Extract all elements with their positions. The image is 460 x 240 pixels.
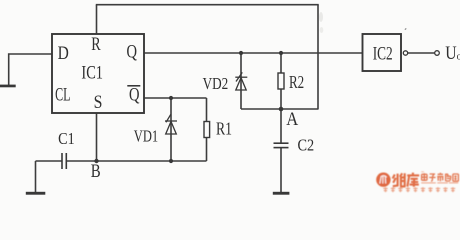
watermark small chars: dian [422,173,427,181]
watermark small chars: chang [446,174,451,182]
svg-text:CL: CL [55,84,70,105]
wire S pin to node B [96,113,98,161]
IC2 output bubble [403,51,407,55]
svg-text:o: o [457,52,460,63]
resistor R2 [278,73,284,89]
svg-text:R2: R2 [289,72,304,92]
wire node A horizontal rail [241,108,318,110]
node junction VD1 bottom [169,159,173,163]
wire R pin to top rail [96,5,98,35]
wire bottom rail left of C1 [36,160,63,162]
wire bottom rail right of C1 [66,160,206,162]
node B junction [94,159,98,163]
watermark small chars: zi [429,174,435,181]
wire VD1 branch vertical [170,98,172,161]
svg-text:R: R [91,34,101,55]
svg-text:Q: Q [129,84,140,105]
svg-text:U: U [445,43,457,64]
watermark small chars: shi [437,173,443,181]
watermark char ku [407,173,419,187]
wire IC2 output to terminal [408,52,435,54]
watermark url text www.dzsc.com [421,182,458,184]
output terminal circle Uo [435,51,440,56]
ground (bottom left, C1) [26,192,46,195]
wire Q output line to IC2 [144,52,363,54]
svg-text:S: S [94,92,103,113]
svg-text:D: D [58,43,69,64]
diode VD2 [235,72,247,90]
wire Qbar output line [144,97,207,99]
resistor R1 [204,122,210,138]
svg-text:IC1: IC1 [81,62,103,83]
wire top rail [96,4,319,6]
watermark logo circle [376,173,390,187]
svg-text:C2: C2 [297,136,314,155]
node junction Q-VD2 [239,51,243,55]
wire C2 bottom lead to ground [280,148,282,192]
capacitor C1 plates [62,153,66,169]
wire right vertical drop from top rail to node A line [317,5,319,110]
wire R1 branch top [206,98,208,122]
node junction Q-R2 [279,51,283,55]
diode VD1 [165,114,177,134]
ground (C2) [273,192,290,195]
wire VD2 branch vertical [240,53,242,109]
wire R2 branch top [280,53,282,73]
wire R1 branch bottom [206,138,208,162]
watermark bottom slogan row [383,187,455,192]
watermark TM mark [421,171,424,173]
scan artifact tick near IC2 [405,28,407,31]
wire R2 branch bottom [280,89,282,109]
ground (top left, D input) [0,85,16,88]
watermark char wei [393,173,406,186]
svg-text:Q: Q [126,42,137,63]
svg-text:A: A [286,109,298,130]
wire C2 top lead [280,109,282,143]
svg-text:IC2: IC2 [373,45,393,65]
svg-text:VD1: VD1 [134,126,158,145]
capacitor C2 plates [274,143,289,147]
svg-text:B: B [91,162,101,182]
wire left ground drop [35,161,37,192]
watermark small chars: wang [453,174,459,181]
node A junction [279,107,284,112]
wire D pin to ground [9,54,52,85]
svg-text:R1: R1 [216,119,232,139]
svg-text:C1: C1 [58,129,75,148]
IC2 box [363,34,402,71]
svg-text:VD2: VD2 [203,74,229,93]
flip-flop IC1 box [52,34,144,113]
scan artifact smudges left of IC2 [319,12,323,22]
node junction Qbar-VD1 [169,96,173,100]
